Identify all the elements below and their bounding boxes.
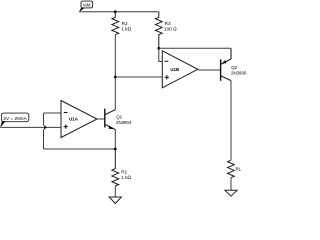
ground (left, under R1) [109,197,121,204]
wire to U1B + input [115,76,162,78]
svg-text:RL: RL [236,167,242,172]
resistor R1 [112,149,132,186]
source flag 2V = 20mA [0,113,29,128]
svg-text:Vdd: Vdd [83,2,91,7]
wire feedback bottom [44,148,116,150]
transistor Q1 2N3904 [105,109,132,130]
transistor Q2 2N3906 [221,48,247,81]
wire source to U1A + input [1,126,62,128]
resistor RL [228,160,242,177]
wire Q1 emitter down [114,130,116,150]
wire U1A output to Q1 base [97,118,105,120]
node emitter junction [114,148,117,151]
wire R2 bottom to Q1 collector [114,35,116,110]
svg-text:1 kΩ: 1 kΩ [121,175,131,180]
resistor R2 [112,12,132,35]
Vdd net flag [79,1,93,12]
svg-text:2V = 20mA: 2V = 20mA [3,116,27,121]
svg-text:2N3904: 2N3904 [116,120,132,125]
wire RL to ground [230,178,232,191]
node junction R3 bottom [157,47,160,50]
wire R1 to ground [114,186,116,197]
wire U1B output to Q2 base [198,69,221,71]
node junction U1B noninverting branch [114,76,117,79]
wire feedback vertical with jog [44,113,46,149]
svg-text:100 Ω: 100 Ω [164,26,177,31]
op-amp U1B [162,51,198,88]
wire R3 junction to Q2 emitter [159,47,231,49]
svg-text:2N3906: 2N3906 [231,70,247,75]
svg-text:U1B: U1B [170,67,179,72]
svg-text:U1A: U1A [69,116,79,121]
svg-text:Q2: Q2 [231,65,237,70]
resistor R3 [155,12,177,49]
wire R3 junction to U1B - input [159,48,163,61]
ground (right, under RL) [225,190,237,196]
wire Q2 collector to RL [230,81,232,161]
wire U1A - input [44,112,62,114]
wire Vdd rail [79,11,159,13]
node junction R2 top [114,10,117,13]
op-amp U1A [61,101,97,138]
svg-text:1 kΩ: 1 kΩ [121,26,131,31]
node jog touch point [44,126,46,128]
